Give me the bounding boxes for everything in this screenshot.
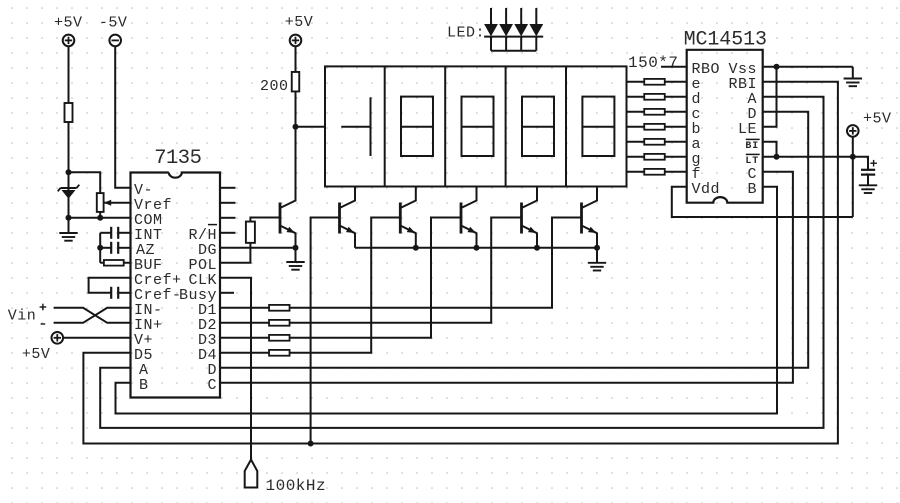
svg-text:7135: 7135: [154, 147, 201, 170]
svg-text:100kHz: 100kHz: [266, 477, 327, 495]
svg-text:150*7: 150*7: [628, 54, 679, 72]
svg-text:MC14513: MC14513: [684, 29, 767, 52]
svg-text:BI: BI: [745, 141, 759, 152]
svg-text:B: B: [747, 181, 757, 198]
svg-text:Vdd: Vdd: [692, 181, 721, 198]
svg-text:LE: LE: [738, 121, 757, 138]
svg-text:+5V: +5V: [285, 14, 314, 31]
svg-text:Vin: Vin: [8, 308, 37, 325]
svg-text:200: 200: [260, 78, 289, 95]
svg-text:-5V: -5V: [99, 14, 128, 31]
svg-text:+5V: +5V: [54, 14, 83, 31]
svg-text:C: C: [207, 377, 217, 394]
svg-text:+5V: +5V: [22, 346, 51, 363]
svg-text:+5V: +5V: [863, 111, 892, 128]
svg-text:B: B: [139, 377, 149, 394]
svg-text:LT: LT: [745, 156, 759, 167]
svg-text:LED:: LED:: [447, 25, 485, 42]
